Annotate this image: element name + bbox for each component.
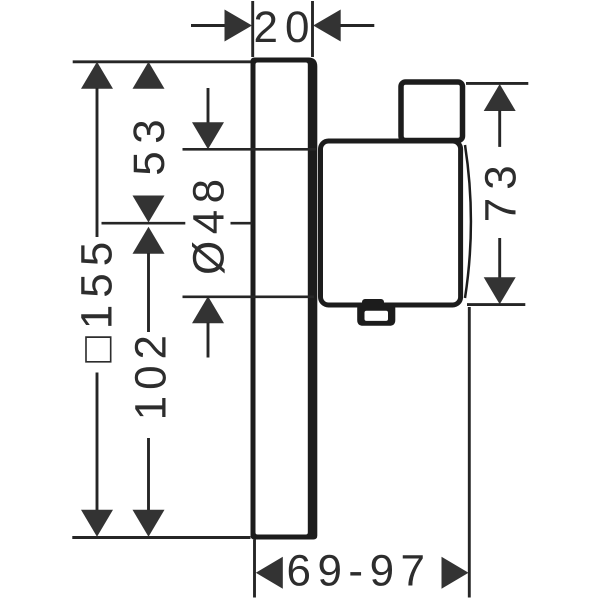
dim 73: upper tail (498, 110, 501, 147)
arrowhead 20 left (225, 10, 253, 42)
handle curve (arc right of body) (465, 145, 471, 298)
extension line 20 left (251, 1, 254, 57)
valve body (321, 141, 461, 305)
svg-text:□155: □155 (72, 235, 121, 363)
extension line 69-97 left (253, 540, 256, 598)
svg-text:69-97: 69-97 (286, 547, 431, 596)
dim 102: lower tail (147, 438, 150, 511)
dim 155: upper tail (96, 88, 99, 237)
svg-text:53: 53 (125, 112, 174, 176)
svg-text:Ø48: Ø48 (184, 172, 233, 275)
svg-text:20: 20 (254, 3, 317, 52)
extension line circle top (y=149) (183, 148, 317, 151)
dim diameter48: up arrow (192, 296, 224, 323)
extension line circle bottom (y=297) (183, 295, 315, 298)
dim 69-97: left arrow (256, 557, 283, 589)
extension line top (y=62) (73, 60, 251, 63)
dim 102: upper tail (147, 253, 150, 332)
dim diameter48: upper tail (207, 88, 210, 124)
svg-text:102: 102 (126, 329, 175, 420)
svg-text:73: 73 (477, 157, 526, 222)
dim 73: top arrow (484, 84, 516, 111)
leader 20 right (341, 24, 375, 27)
extension line 69-97 right (468, 307, 471, 598)
centerline left segment (102, 222, 186, 225)
dim 73: lower tail (498, 238, 501, 278)
dim 53: bottom arrow (133, 196, 165, 223)
dim 102: bottom arrow (133, 510, 165, 537)
handle cap (small top box) (401, 82, 463, 141)
extension line 73 top (466, 82, 528, 85)
extension line 20 right (311, 1, 314, 57)
dim 69-97: right arrow (442, 557, 469, 589)
arrowhead 20 right (313, 10, 341, 42)
dim 53: top arrow (133, 62, 165, 89)
extension line 73 bottom (467, 303, 525, 306)
dim 155: top arrow (81, 62, 113, 89)
clip tab (notch below body) (357, 303, 395, 326)
dim diameter48: lower tail (207, 323, 210, 358)
dim 155: bottom arrow (81, 510, 113, 537)
leader 20 left (191, 24, 225, 27)
dim diameter48: down arrow (192, 122, 224, 149)
dim 102: top arrow (133, 227, 165, 254)
bump on body bottom edge (362, 299, 384, 306)
dim 73: bottom arrow (484, 277, 516, 304)
centerline right segment (231, 222, 253, 225)
dim 155: lower tail (96, 373, 99, 512)
plate (escutcheon side view) (251, 58, 318, 540)
extension line bottom (y=537) (72, 536, 250, 539)
